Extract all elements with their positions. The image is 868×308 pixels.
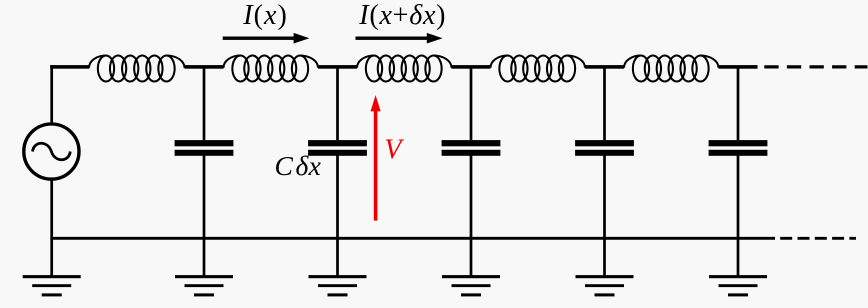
capacitor C2 — [308, 140, 367, 156]
inductor L3 — [357, 56, 452, 82]
AC source sine wave — [33, 143, 71, 160]
wire node 5 vertical lower — [737, 155, 740, 276]
wire node 3 vertical lower — [470, 155, 473, 276]
svg-text:V: V — [384, 135, 404, 166]
arrow V (red) — [371, 95, 381, 221]
capacitor C3 — [442, 140, 501, 156]
arrow I(x) direction — [223, 37, 297, 40]
capacitor C4 — [575, 140, 634, 156]
wire node 4 vertical upper — [603, 67, 606, 140]
svg-text:I(x+δx): I(x+δx) — [358, 0, 446, 31]
ground source — [23, 275, 81, 296]
wire node 5 vertical upper — [737, 67, 740, 140]
inductor L4 — [491, 56, 586, 82]
capacitor C1 — [175, 140, 234, 156]
wire top-left horizontal from source to L1 — [50, 65, 89, 69]
svg-text:I(x): I(x) — [242, 0, 288, 31]
wire top node 1 segment — [185, 65, 224, 69]
inductor L1 — [89, 56, 185, 82]
wire top node 4 segment — [585, 65, 624, 69]
AC source circle — [24, 124, 79, 179]
wire node 2 vertical upper — [336, 67, 339, 140]
ground node 4 — [576, 275, 634, 296]
wire bottom bus dashed continuation — [780, 237, 856, 240]
ground node 3 — [442, 275, 500, 296]
wire node 3 vertical upper — [470, 67, 473, 140]
inductor L2 — [224, 56, 319, 82]
wire top node 3 segment — [452, 65, 491, 69]
capacitor C5 — [709, 140, 768, 156]
inductor L5 — [624, 56, 719, 82]
wire node 1 vertical lower — [203, 155, 206, 276]
ground node 2 — [309, 275, 367, 296]
wire bottom bus — [50, 237, 775, 240]
wire source vertical top — [50, 65, 53, 123]
arrow I(x+dx) direction — [356, 37, 430, 40]
wire top dashed continuation — [764, 65, 867, 68]
wire node 1 vertical upper — [203, 67, 206, 140]
wire node 2 vertical lower — [336, 155, 339, 276]
wire source vertical bottom to ground — [50, 179, 53, 276]
svg-text:Cδx: Cδx — [275, 150, 322, 181]
ground node 1 — [175, 275, 233, 296]
wire top node 2 segment — [318, 65, 357, 69]
ground node 5 — [709, 275, 767, 296]
wire top node 5 segment — [719, 65, 758, 69]
wire node 4 vertical lower — [603, 155, 606, 276]
